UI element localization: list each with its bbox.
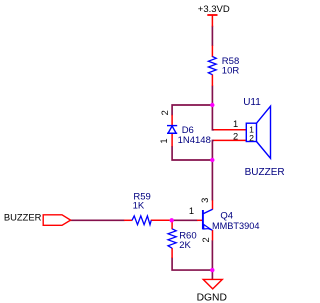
- svg-text:DGND: DGND: [197, 292, 227, 303]
- svg-text:2: 2: [233, 132, 238, 142]
- svg-text:2K: 2K: [179, 240, 191, 251]
- svg-text:+3.3VD: +3.3VD: [198, 4, 230, 15]
- svg-text:BUZZER: BUZZER: [245, 167, 285, 178]
- svg-text:2: 2: [249, 133, 254, 143]
- svg-text:BUZZER: BUZZER: [4, 211, 42, 222]
- svg-text:MMBT3904: MMBT3904: [212, 221, 260, 231]
- svg-text:1: 1: [233, 119, 238, 129]
- svg-text:1: 1: [159, 138, 169, 143]
- svg-text:3: 3: [200, 198, 210, 203]
- svg-text:1N4148: 1N4148: [178, 135, 211, 146]
- svg-text:2: 2: [160, 110, 170, 115]
- svg-text:U11: U11: [243, 97, 261, 108]
- svg-text:2: 2: [201, 237, 211, 242]
- svg-text:1K: 1K: [133, 201, 145, 212]
- svg-text:10R: 10R: [222, 66, 240, 77]
- svg-text:1: 1: [189, 206, 194, 216]
